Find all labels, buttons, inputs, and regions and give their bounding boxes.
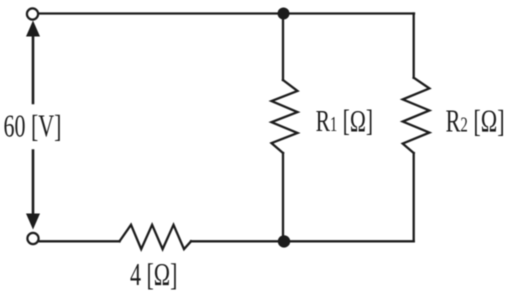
wire R1 branch bottom (R1 to bottom node) xyxy=(282,153,284,241)
svg-text:4 [Ω]: 4 [Ω] xyxy=(130,257,177,292)
wire bottom-left (terminal to resistor) xyxy=(40,240,120,242)
terminal top-left xyxy=(27,8,38,19)
svg-text:R2 [Ω]: R2 [Ω] xyxy=(446,104,505,139)
voltage source arrow shaft lower xyxy=(32,151,35,216)
resistor 4-ohm xyxy=(120,225,192,249)
svg-text:R1 [Ω]: R1 [Ω] xyxy=(316,103,373,138)
resistor R1 xyxy=(272,80,298,153)
resistor R2 xyxy=(403,78,430,153)
wire top (top-left terminal to top-right corner) xyxy=(39,12,414,14)
wire R2 branch top (top-right corner down to R2) xyxy=(413,14,415,78)
wire R1 branch top (node to R1) xyxy=(282,14,284,81)
svg-text:60 [V]: 60 [V] xyxy=(4,109,62,144)
node bottom junction xyxy=(278,235,290,247)
voltage source arrow shaft upper xyxy=(32,34,35,103)
terminal bottom-left xyxy=(27,233,38,244)
arrowhead up (to top terminal) xyxy=(26,21,40,37)
wire bottom-right (resistor through bottom node to corner) xyxy=(191,240,414,242)
arrowhead down (to bottom terminal) xyxy=(26,214,40,230)
node top junction xyxy=(278,8,290,20)
wire R2 branch bottom (R2 to bottom-right corner) xyxy=(413,153,415,241)
